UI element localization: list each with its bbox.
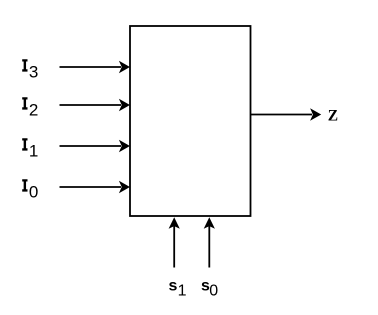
wire select s1 bbox=[169, 217, 180, 267]
mux block U1 bbox=[130, 26, 251, 216]
wire select s0 bbox=[204, 217, 215, 267]
svg-text:1: 1 bbox=[29, 141, 38, 160]
label I1 bbox=[22, 138, 27, 150]
svg-text:Z: Z bbox=[328, 107, 338, 124]
svg-text:0: 0 bbox=[29, 182, 38, 201]
wire input I0 bbox=[60, 181, 131, 193]
label I3 bbox=[22, 59, 27, 71]
wire input I2 bbox=[60, 99, 131, 111]
svg-text:0: 0 bbox=[209, 283, 218, 300]
wire input I1 bbox=[60, 140, 131, 152]
svg-text:1: 1 bbox=[178, 283, 187, 300]
wire input I3 bbox=[60, 61, 131, 73]
svg-text:s: s bbox=[169, 277, 178, 294]
wire output Z bbox=[251, 108, 322, 120]
label I2 bbox=[22, 97, 27, 109]
svg-text:3: 3 bbox=[29, 62, 38, 81]
svg-text:2: 2 bbox=[29, 100, 38, 119]
label I0 bbox=[22, 179, 27, 191]
